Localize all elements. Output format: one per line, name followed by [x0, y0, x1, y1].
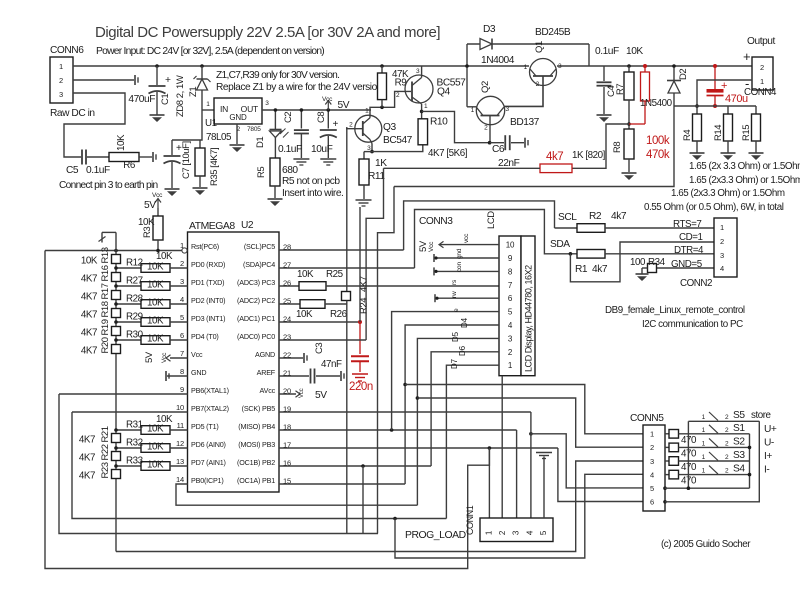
- svg-text:R3: R3: [142, 227, 153, 238]
- svg-text:47nF: 47nF: [321, 359, 342, 370]
- capacitor C7 10uF: [164, 140, 193, 188]
- wire C6 to ground: [511, 142, 524, 144]
- svg-text:PB7(XTAL2): PB7(XTAL2): [191, 404, 229, 413]
- svg-text:4K7: 4K7: [81, 292, 97, 303]
- svg-text:R16: R16: [100, 265, 111, 281]
- resistor R28 10K: [114, 294, 187, 309]
- svg-text:Vcc: Vcc: [299, 388, 305, 398]
- svg-text:3: 3: [650, 457, 654, 466]
- svg-text:10K: 10K: [147, 280, 164, 291]
- svg-text:PD4 (T0): PD4 (T0): [191, 332, 219, 341]
- svg-text:+: +: [333, 119, 339, 130]
- svg-text:3: 3: [180, 277, 184, 286]
- resistor 470 pin3: [665, 457, 750, 473]
- svg-text:Vcc: Vcc: [161, 352, 168, 363]
- svg-text:3: 3: [416, 68, 420, 75]
- wire pin14 loop under chip: [176, 484, 417, 505]
- svg-text:2: 2: [484, 125, 488, 132]
- svg-text:PD5 (T1): PD5 (T1): [191, 422, 219, 431]
- wire pin16 branch down: [362, 466, 364, 534]
- svg-text:3: 3: [506, 106, 510, 113]
- svg-text:4k7: 4k7: [611, 211, 627, 222]
- svg-text:S2: S2: [733, 436, 745, 447]
- svg-text:4: 4: [525, 530, 534, 535]
- svg-text:14: 14: [176, 475, 184, 484]
- svg-text:Q4: Q4: [437, 87, 450, 98]
- resistor R6: [109, 134, 139, 171]
- svg-text:AREF: AREF: [257, 368, 276, 377]
- capacitor C8 10uF: [311, 110, 339, 158]
- resistor R9 47K: [378, 66, 409, 100]
- wire R1 to CONN2 pin3: [569, 245, 714, 256]
- svg-text:4k7: 4k7: [546, 151, 563, 163]
- ground R6 earth pin: [153, 152, 156, 162]
- ground AREF: [341, 371, 344, 381]
- svg-text:2: 2: [59, 76, 63, 85]
- svg-text:SDA: SDA: [550, 239, 570, 250]
- wire pin25 row: [279, 303, 300, 305]
- wire main rail Q1 emitter to CONN4: [557, 65, 752, 67]
- svg-text:C1: C1: [160, 94, 171, 105]
- vcc 5V arrow U1 out: [322, 96, 350, 112]
- wire SCK branch to CONN5 pin5: [531, 434, 643, 488]
- svg-text:R33: R33: [126, 456, 144, 467]
- connector CONN5: [630, 413, 665, 511]
- svg-text:2: 2: [725, 440, 729, 447]
- resistor R11 1K: [359, 152, 387, 185]
- wire pin24 row: [279, 321, 360, 323]
- svg-text:5: 5: [539, 530, 548, 535]
- svg-text:(ADC1) PC1: (ADC1) PC1: [237, 314, 275, 323]
- ground R35: [193, 188, 208, 195]
- svg-text:rw: rw: [451, 291, 458, 298]
- svg-text:6: 6: [180, 331, 184, 340]
- lcd type rotated text: [524, 265, 534, 372]
- svg-text:Q1: Q1: [534, 41, 545, 53]
- wire Q4 collector to Q2 emitter: [422, 111, 490, 142]
- ground R5: [268, 199, 283, 206]
- connector CONN1: [465, 505, 553, 541]
- svg-text:Vcc: Vcc: [152, 192, 163, 199]
- wire R26 to R24: [325, 303, 347, 305]
- wire black R11 gnd to 220n node: [359, 207, 361, 322]
- ic U2 ATMEGA8: [188, 220, 280, 492]
- wire D3 branch top: [465, 44, 589, 107]
- svg-text:+: +: [165, 75, 171, 86]
- resistor R2 4k7: [555, 211, 627, 232]
- svg-text:ATMEGA8: ATMEGA8: [189, 221, 235, 232]
- wire D4 bus to CONN5 pin1: [405, 385, 643, 436]
- wire outer loop to CONN1 pin1: [488, 448, 490, 518]
- svg-text:vcc: vcc: [463, 233, 470, 243]
- svg-text:D7: D7: [450, 358, 459, 369]
- svg-text:1.65 (2x3.3 Ohm) or 1.5Ohm: 1.65 (2x3.3 Ohm) or 1.5Ohm: [689, 175, 800, 186]
- svg-text:Vcc: Vcc: [191, 350, 203, 359]
- svg-text:9: 9: [180, 385, 184, 394]
- svg-text:1: 1: [650, 430, 654, 439]
- svg-text:7: 7: [180, 349, 184, 358]
- svg-text:store: store: [751, 410, 772, 421]
- svg-text:D4: D4: [460, 317, 469, 328]
- svg-text:IN: IN: [220, 104, 228, 114]
- svg-text:10K: 10K: [296, 309, 313, 320]
- switch S2: [702, 436, 774, 448]
- wire R8 to ground: [628, 159, 630, 172]
- wire pin27 SDA stub: [279, 267, 415, 269]
- wire Q4 emitter to rail: [421, 66, 423, 78]
- resistor R15: [741, 106, 761, 153]
- wire lcd pin9 conn3: [434, 248, 499, 262]
- wire pin10 bus: [72, 411, 188, 413]
- svg-text:U2: U2: [241, 220, 254, 231]
- svg-text:(OC1A) PB1: (OC1A) PB1: [237, 476, 275, 485]
- svg-text:10K: 10K: [138, 217, 155, 228]
- svg-text:2: 2: [760, 63, 764, 72]
- svg-text:PD3 (INT1): PD3 (INT1): [191, 314, 225, 323]
- svg-text:SCL: SCL: [558, 212, 577, 223]
- label rs lcd pin7: [451, 279, 458, 285]
- svg-text:2: 2: [725, 454, 729, 461]
- resistor R39 4k7 red: [540, 150, 606, 173]
- wire divider sense staircase to ladder bus: [378, 187, 395, 534]
- svg-text:GND: GND: [191, 368, 206, 377]
- svg-text:10: 10: [506, 241, 515, 250]
- resistor 470 pin1: [665, 430, 750, 446]
- svg-text:BD245B: BD245B: [535, 27, 571, 38]
- svg-text:R5 not on pcb: R5 not on pcb: [282, 176, 340, 187]
- svg-text:R32: R32: [126, 438, 143, 449]
- wire pin18 MISO row: [279, 428, 517, 432]
- wire MISO to CONN1 pin3: [516, 430, 518, 518]
- svg-text:1: 1: [702, 414, 706, 421]
- svg-text:R27: R27: [126, 276, 143, 287]
- vcc AVcc pin20: [279, 388, 327, 401]
- resistor R33 10K: [114, 456, 187, 471]
- ground R14: [721, 153, 736, 160]
- ground C7: [165, 189, 180, 196]
- svg-text:R29: R29: [126, 312, 143, 323]
- wire U1 out rail: [262, 100, 371, 110]
- svg-text:Raw DC in: Raw DC in: [50, 108, 95, 119]
- label 10K near pin1: [156, 251, 173, 262]
- conn5 pin numbers: [650, 430, 654, 507]
- svg-text:(MOSI) PB3: (MOSI) PB3: [238, 440, 275, 449]
- wire D2 to divider: [394, 106, 674, 187]
- note DB9 text: [605, 305, 745, 330]
- ic U2 left pin labels: [176, 241, 229, 485]
- wire CONN4 pin1 to sense: [695, 80, 752, 114]
- svg-text:Vcc: Vcc: [322, 96, 333, 103]
- wire lcd pin3 D5: [416, 331, 499, 505]
- svg-text:Q2: Q2: [480, 81, 491, 93]
- wire lcd pin10 vcc: [418, 233, 499, 252]
- resistor R35: [195, 140, 220, 187]
- svg-text:1K: 1K: [375, 158, 387, 169]
- title text: [95, 24, 440, 41]
- svg-text:LCD Display, HD44780, 16X2: LCD Display, HD44780, 16X2: [524, 265, 534, 372]
- svg-text:10K: 10K: [147, 334, 164, 345]
- resistor R34 100: [630, 257, 666, 274]
- wire R9 to Q4 base node: [381, 100, 383, 108]
- svg-text:I-: I-: [764, 465, 769, 476]
- svg-text:3: 3: [512, 530, 521, 535]
- svg-text:R2: R2: [589, 211, 602, 222]
- svg-text:C7 [10uF]: C7 [10uF]: [181, 141, 192, 179]
- ground AGND pin22: [279, 353, 307, 363]
- svg-text:R17: R17: [100, 283, 111, 299]
- wire pin26 row to LCD rs: [279, 285, 299, 287]
- svg-text:R26: R26: [330, 309, 348, 320]
- svg-text:10K: 10K: [156, 251, 173, 262]
- wire R5 to ground: [274, 186, 276, 198]
- wire SCL route: [404, 201, 578, 250]
- svg-text:3: 3: [59, 90, 63, 99]
- svg-text:10K: 10K: [297, 269, 314, 280]
- resistor R16 4K7 ladder: [81, 265, 121, 284]
- svg-text:R9: R9: [395, 78, 407, 89]
- svg-text:DB9_female_Linux_remote_contro: DB9_female_Linux_remote_control: [605, 305, 745, 316]
- svg-text:100: 100: [630, 257, 646, 268]
- capacitor C5: [66, 150, 110, 177]
- wire Q3 collector to Q4 base node: [365, 91, 411, 117]
- transistor Q2 BD137: [471, 81, 540, 131]
- resistor R29 10K: [114, 312, 187, 327]
- svg-text:10K: 10K: [147, 424, 164, 435]
- svg-text:I2C communication to PC: I2C communication to PC: [642, 319, 743, 330]
- svg-text:4: 4: [720, 264, 724, 273]
- svg-text:2: 2: [180, 259, 184, 268]
- svg-text:R4: R4: [682, 130, 693, 141]
- svg-text:U1: U1: [205, 118, 217, 129]
- wire R25 to LCD pin7: [326, 285, 499, 287]
- junction rail C1: [155, 64, 159, 68]
- svg-text:(SDA)PC4: (SDA)PC4: [243, 260, 275, 269]
- wire pin9 loop bus: [59, 394, 378, 534]
- svg-text:4K7: 4K7: [81, 310, 97, 321]
- label CONN3: [419, 216, 453, 227]
- svg-text:1: 1: [702, 427, 706, 434]
- svg-text:6: 6: [650, 498, 654, 507]
- note connect pin3 text: [59, 180, 158, 191]
- resistor R32 10K: [114, 438, 187, 453]
- svg-text:R6: R6: [123, 160, 136, 171]
- wire SDA route: [415, 210, 578, 269]
- svg-text:100k: 100k: [646, 135, 670, 147]
- ground 220n red earth: [352, 374, 368, 381]
- svg-text:R1: R1: [575, 264, 588, 275]
- svg-text:BC547: BC547: [383, 135, 413, 146]
- svg-text:PD6 (AIN0): PD6 (AIN0): [191, 440, 226, 449]
- output connector CONN4: [743, 36, 777, 98]
- svg-text:R10: R10: [430, 117, 448, 128]
- svg-text:1: 1: [702, 468, 706, 475]
- svg-text:R15: R15: [741, 125, 752, 141]
- svg-text:2: 2: [650, 443, 654, 452]
- svg-text:Z1,C7,R39 only for 30V version: Z1,C7,R39 only for 30V version.: [216, 70, 339, 81]
- svg-text:R25: R25: [326, 269, 344, 280]
- svg-text:0.55 Ohm (or 0.5 Ohm), 6W, in: 0.55 Ohm (or 0.5 Ohm), 6W, in total: [644, 202, 784, 213]
- wire R24 node down to SCK row: [346, 304, 348, 534]
- svg-text:e: e: [453, 308, 460, 312]
- svg-text:(c) 2005 Guido Socher: (c) 2005 Guido Socher: [661, 539, 751, 550]
- svg-text:CONN5: CONN5: [630, 413, 664, 424]
- svg-text:C6: C6: [492, 144, 505, 155]
- svg-text:GND=5: GND=5: [671, 259, 703, 270]
- svg-text:11: 11: [177, 421, 184, 430]
- wire lcd pin8 conn3: [434, 262, 499, 276]
- wire S5 common to pin5 bus: [687, 421, 689, 488]
- svg-text:ZD8 2, 1W: ZD8 2, 1W: [175, 75, 186, 117]
- wire pin23 row: [279, 339, 366, 341]
- svg-text:C3: C3: [314, 343, 325, 354]
- svg-text:22nF: 22nF: [498, 158, 520, 169]
- wire Q3 emitter node: [364, 144, 374, 154]
- svg-text:Z1: Z1: [188, 87, 199, 97]
- svg-text:0.1uF: 0.1uF: [278, 144, 302, 155]
- svg-text:Replace Z1 by a wire for the 2: Replace Z1 by a wire for the 24V version…: [216, 82, 384, 93]
- resistor R4: [682, 114, 702, 153]
- svg-text:10K: 10K: [626, 46, 643, 57]
- svg-text:PD2 (INT0): PD2 (INT0): [191, 296, 225, 305]
- wire D1 to R5: [274, 138, 276, 159]
- svg-text:R30: R30: [126, 330, 144, 341]
- wire SCK to CONN1 pin4: [530, 412, 532, 518]
- switch S4: [702, 464, 770, 476]
- svg-text:I+: I+: [764, 451, 772, 462]
- svg-text:1: 1: [760, 77, 764, 86]
- svg-text:78L05: 78L05: [206, 132, 232, 143]
- ground R8: [622, 173, 637, 180]
- svg-text:1K [820]: 1K [820]: [572, 150, 606, 161]
- wire lcd pin5 e to MISO row: [392, 308, 499, 430]
- svg-text:GND: GND: [229, 113, 247, 122]
- note Z1 C7 R39 text: [216, 70, 384, 93]
- wire pin28 SCL stub: [279, 249, 404, 251]
- svg-text:10K: 10K: [147, 262, 164, 273]
- junction rail R7: [626, 46, 643, 68]
- wire pin15 row: [279, 483, 405, 485]
- wire C5 to R6: [87, 156, 109, 158]
- svg-text:4K7: 4K7: [79, 453, 95, 464]
- svg-text:4K7: 4K7: [81, 328, 97, 339]
- svg-text:CONN3: CONN3: [419, 216, 453, 227]
- wire Z1 node down to C7 R35: [172, 110, 202, 140]
- resistor R30 10K: [114, 330, 187, 345]
- connector CONN2: [680, 218, 737, 289]
- svg-text:LCD: LCD: [486, 211, 497, 229]
- svg-text:BD137: BD137: [510, 117, 540, 128]
- svg-text:1: 1: [720, 223, 724, 232]
- svg-text:(ADC2) PC2: (ADC2) PC2: [237, 296, 275, 305]
- wire ladder vertical: [115, 232, 117, 551]
- svg-text:2: 2: [720, 237, 724, 246]
- svg-text:RTS=7: RTS=7: [673, 219, 701, 230]
- ground U1: [230, 145, 245, 152]
- wire R6 to earth: [139, 156, 152, 158]
- capacitor 470u red: [707, 64, 749, 108]
- svg-text:5: 5: [650, 484, 654, 493]
- wire U1 gnd pin2: [236, 124, 238, 144]
- svg-text:4: 4: [650, 470, 654, 479]
- svg-text:1.65 (2x 3.3 Ohm) or 1.5Ohm: 1.65 (2x 3.3 Ohm) or 1.5Ohm: [689, 161, 800, 172]
- wire Q4 collector to R10: [420, 104, 424, 119]
- wire CD route: [570, 232, 714, 282]
- wire lcd pin4 D4: [403, 317, 499, 484]
- diode D2 1N5400: [667, 64, 689, 106]
- wire reset row to outer loop: [45, 249, 182, 253]
- resistor R21 4K7 ladder: [79, 426, 121, 445]
- svg-text:D2: D2: [678, 69, 689, 80]
- wire feedback R7R8 node: [572, 124, 629, 168]
- svg-text:Vcc: Vcc: [428, 241, 435, 252]
- wire Z1 to U1 pin1: [202, 101, 214, 110]
- svg-text:Power Input: DC 24V [or 32V],: Power Input: DC 24V [or 32V], 2.5A (depe…: [96, 46, 324, 57]
- vcc arrow pin7: [144, 351, 188, 363]
- svg-text:R8: R8: [612, 142, 623, 153]
- resistor R12 10K: [114, 258, 187, 273]
- wire CONN6 pin3 loop: [64, 93, 125, 157]
- svg-text:1N5400: 1N5400: [640, 98, 673, 109]
- svg-text:R13: R13: [100, 247, 111, 263]
- svg-text:AGND: AGND: [255, 350, 275, 359]
- svg-text:4K7: 4K7: [79, 435, 95, 446]
- svg-text:Insert into wire.: Insert into wire.: [282, 188, 343, 199]
- svg-text:CONN2: CONN2: [680, 278, 712, 289]
- svg-text:1: 1: [365, 108, 369, 115]
- ground R15: [749, 153, 764, 160]
- power resistor notes text: [644, 161, 800, 213]
- transistor Q4 BC557: [405, 68, 466, 110]
- svg-text:4K7: 4K7: [81, 346, 97, 357]
- svg-text:R21: R21: [100, 426, 111, 442]
- wire ladder bottom bus to CONN5 pin3: [116, 461, 643, 552]
- svg-text:D6: D6: [458, 345, 467, 356]
- svg-text:R18: R18: [100, 301, 111, 317]
- wire lcd pin6 rw conn3: [435, 291, 499, 302]
- svg-text:S4: S4: [733, 464, 745, 475]
- svg-text:DTR=4: DTR=4: [674, 245, 704, 256]
- capacitor C1 470uF: [128, 66, 171, 115]
- svg-text:3: 3: [265, 100, 269, 107]
- wire pin10 loop bus to D7: [72, 412, 446, 520]
- wire CONN6 pin1 to main rail: [73, 65, 529, 67]
- wire switch outputs common: [665, 434, 751, 490]
- svg-text:4K7 [5K6]: 4K7 [5K6]: [428, 148, 468, 159]
- resistor R26 10K: [296, 300, 348, 320]
- svg-text:PB0(ICP1): PB0(ICP1): [191, 476, 224, 485]
- svg-text:R23: R23: [100, 462, 111, 478]
- resistor R13 10K ladder: [81, 247, 121, 266]
- resistor R19 4K7 ladder: [81, 319, 121, 338]
- svg-text:4: 4: [180, 295, 184, 304]
- switch S3: [702, 450, 773, 462]
- wire lcd pin1 D7: [446, 358, 499, 518]
- wire outer loop left: [45, 251, 489, 569]
- svg-text:470k: 470k: [646, 149, 670, 161]
- svg-text:(SCK) PB5: (SCK) PB5: [242, 404, 276, 413]
- wire S5 to CONN5 pin6: [665, 421, 759, 502]
- svg-text:C5: C5: [66, 165, 79, 176]
- svg-text:2: 2: [396, 92, 400, 99]
- capacitor C3 47nF AREF: [279, 343, 342, 384]
- svg-text:U-: U-: [764, 437, 774, 448]
- resistor R25 10K: [297, 269, 344, 290]
- wire CONN6 pin2 to ground: [73, 79, 134, 81]
- note R5 text: [282, 176, 343, 199]
- ground C6: [525, 138, 528, 148]
- capacitor C2 0.1uF: [278, 108, 309, 158]
- ic U2 right pin labels: [237, 242, 291, 486]
